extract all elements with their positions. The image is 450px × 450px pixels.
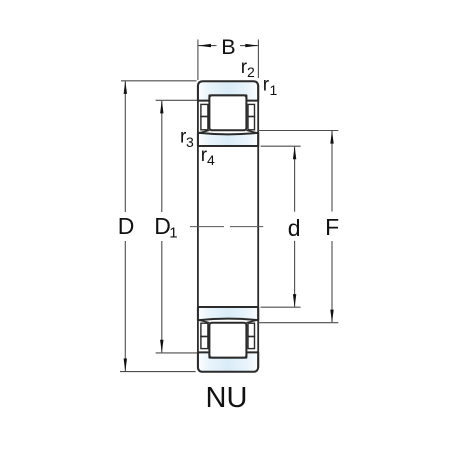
B extension line left — [197, 40, 199, 81]
inner ring bottom section — [198, 307, 258, 320]
svg-text:1: 1 — [270, 82, 278, 98]
cage right bar (top section) — [248, 104, 255, 129]
dimension d — [261, 146, 301, 307]
svg-text:3: 3 — [186, 134, 194, 150]
D arrow top — [124, 81, 127, 94]
svg-text:D: D — [118, 213, 135, 239]
d arrow top — [293, 146, 296, 159]
roller corner diagonal left (bottom) — [199, 320, 210, 323]
D1 extension line bottom — [156, 352, 197, 354]
cage left bar (bottom section) — [201, 323, 208, 348]
F arrow top — [330, 131, 333, 144]
B extension line right — [257, 40, 259, 79]
D1 arrow bottom — [160, 340, 163, 353]
D arrow bottom — [124, 359, 127, 372]
B dimension line — [199, 45, 217, 47]
roller (bottom) — [209, 323, 246, 358]
outer ring top section — [198, 81, 258, 100]
dimension F — [258, 131, 338, 323]
cage left bar (top section) — [201, 104, 208, 129]
F arrow bottom — [330, 310, 333, 323]
d extension line top — [261, 145, 301, 147]
bearing side silhouette right — [257, 85, 259, 368]
inner ring top section — [198, 133, 258, 146]
dimension D — [120, 81, 197, 372]
bearing side silhouette left — [197, 85, 199, 368]
cage right bar (bottom section) — [248, 323, 255, 348]
d dimension line — [294, 147, 296, 212]
d extension line bottom — [261, 306, 301, 308]
roller (top) — [209, 95, 246, 130]
roller corner diagonal right (bottom) — [246, 320, 257, 323]
dimension D1 — [156, 100, 197, 353]
roller corner diagonal left (top) — [199, 130, 210, 133]
D extension line top — [121, 80, 197, 82]
D1 extension line top — [156, 99, 197, 101]
D1 dimension line — [161, 101, 163, 212]
svg-text:2: 2 — [247, 64, 255, 80]
D dimension line — [124, 81, 126, 212]
B arrow right — [245, 44, 258, 47]
svg-text:F: F — [325, 214, 339, 240]
d arrow bottom — [293, 294, 296, 307]
svg-text:NU: NU — [206, 382, 248, 414]
D1 arrow top — [160, 100, 163, 113]
dimension B — [198, 40, 259, 81]
outer ring bottom section — [198, 352, 258, 371]
roller corner diagonal right (top) — [246, 130, 257, 133]
F dimension line — [331, 131, 333, 212]
D extension line bottom — [120, 371, 196, 373]
F extension line bottom — [258, 322, 338, 324]
svg-text:d: d — [288, 215, 301, 241]
F extension line top — [258, 130, 338, 132]
svg-text:B: B — [221, 35, 235, 59]
svg-text:4: 4 — [207, 152, 215, 168]
centerline — [190, 226, 263, 228]
svg-text:1: 1 — [169, 224, 177, 241]
B arrow left — [198, 44, 211, 47]
